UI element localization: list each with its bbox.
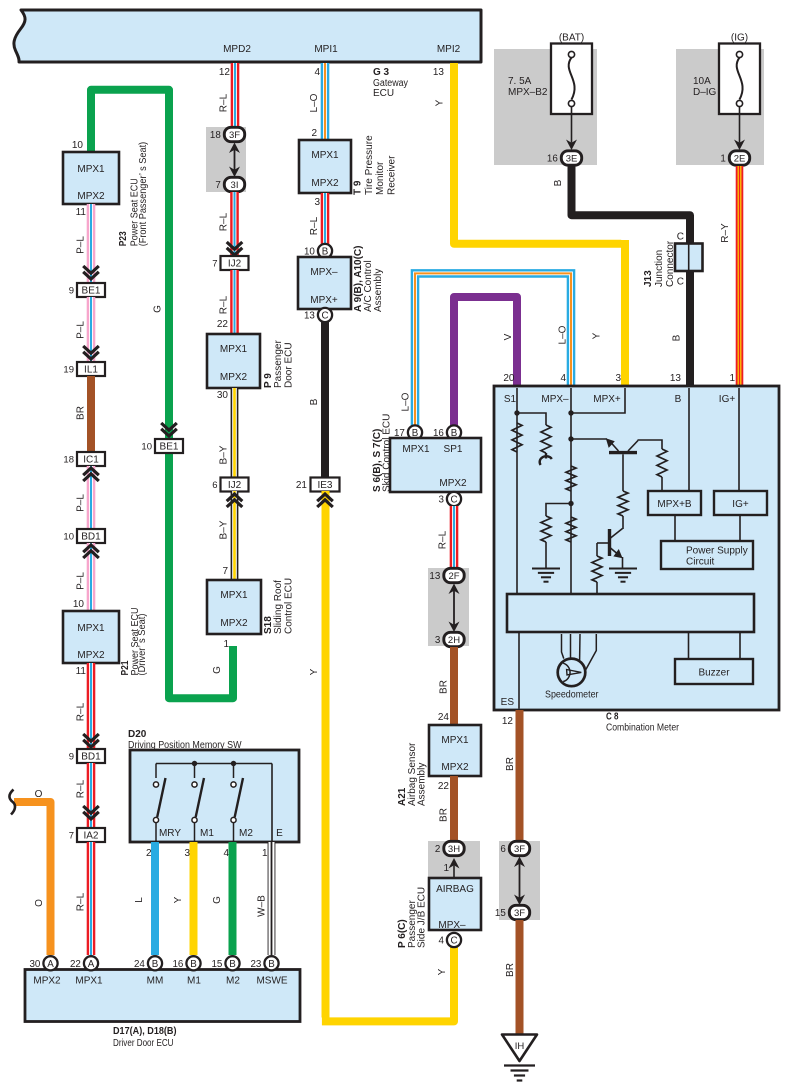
label S6 S7 [372,414,393,492]
svg-text:10A: 10A [693,76,711,87]
svg-text:IL1: IL1 [84,365,98,376]
connector 3H [435,841,464,855]
svg-text:R–L: R–L [76,892,87,911]
connector arrow to IL1 [83,346,99,359]
svg-text:MPX–: MPX– [541,394,569,405]
svg-text:G: G [212,896,223,904]
svg-text:16: 16 [172,959,183,970]
resistor ground branch [541,516,551,542]
svg-text:MPX2: MPX2 [441,762,469,773]
svg-text:R–L: R–L [219,212,230,231]
svg-text:22: 22 [438,781,450,792]
svg-text:IC1: IC1 [83,455,99,466]
wire D20 E line [271,764,273,843]
svg-text:3F: 3F [514,844,525,855]
wire base resistor to Q2 [622,516,624,529]
junction IJ2 lower [212,478,248,492]
svg-text:MPX2: MPX2 [311,178,339,189]
wire Y MPX+ drop [621,240,629,385]
svg-text:1: 1 [262,848,268,859]
ECU P9 Passenger Door ECU [207,334,260,388]
fuse block BAT gray [494,49,597,165]
connector arrow to IA2 [83,806,99,819]
ECU T9 Tire Pressure Monitor Receiver [299,140,351,193]
svg-text:MPX2: MPX2 [439,478,467,489]
svg-text:BE1: BE1 [82,286,101,297]
label A9 A10 [353,246,384,312]
svg-text:3: 3 [314,197,320,208]
svg-text:10: 10 [63,532,74,543]
connector 3E [547,151,582,165]
svg-text:(IG): (IG) [731,33,748,44]
svg-text:BD1: BD1 [81,532,101,543]
connector pin B M2 D17 [211,956,239,970]
wire Y bottom run to P6 [322,947,454,1021]
svg-text:R–L: R–L [76,779,87,798]
svg-text:G 3: G 3 [373,67,390,78]
svg-text:4: 4 [438,936,444,947]
wire B internal [688,388,690,491]
svg-text:Assembly: Assembly [373,269,384,312]
resistor on S1 line [512,423,522,452]
svg-text:23: 23 [250,959,261,970]
svg-text:B: B [672,334,683,341]
wire Q2 emitter to ground [622,557,624,569]
svg-text:2: 2 [435,844,440,855]
transistor Q2 [610,529,623,559]
svg-text:MPX2: MPX2 [77,650,105,661]
junction arrow 3F-3I [229,143,240,178]
svg-text:B: B [152,959,159,970]
svg-text:18: 18 [63,455,74,466]
svg-text:(Front Passenger’ s Seat): (Front Passenger’ s Seat) [138,142,149,247]
ECU A21 Airbag Sensor Assembly [429,725,481,776]
svg-text:MPX–B2: MPX–B2 [508,87,548,98]
node D20 bus M1 [192,761,197,766]
svg-text:16: 16 [547,154,558,165]
connector pin C skid MPX2 [438,492,461,506]
label S18 [263,578,294,634]
connector 3F ES lower [495,905,530,919]
fuse 10A D-IG [719,44,760,115]
svg-text:B–Y: B–Y [219,445,230,464]
svg-text:P–L: P–L [76,572,87,590]
svg-text:Buzzer: Buzzer [698,668,730,679]
wire Q2 base [597,542,609,544]
svg-text:BD1: BD1 [81,752,101,763]
wire G green P23 pin10 to S18 pin1 via BE1 [91,90,233,698]
junction arrow 2F-2H [449,584,460,633]
wire D20 bus [156,763,272,765]
wire P-L BD1 to P21 [87,543,96,611]
svg-text:11: 11 [76,207,87,218]
speedometer symbol [558,659,586,687]
label P6 [397,887,428,948]
ground symbol IH [504,1066,535,1081]
svg-text:MRY: MRY [159,828,181,839]
resistor MPX- upper [566,466,576,491]
wire L-O banner to T9 [321,63,330,140]
connector pin B MM D17 [134,956,162,970]
wire ES internal [518,632,520,709]
wire R-L MPD2 from banner [231,63,240,127]
svg-text:MPX2: MPX2 [220,372,248,383]
wire R-Y 2E to meter IG+ [736,166,744,385]
svg-text:IG+: IG+ [732,499,749,510]
wire R-L T9 to A9 [321,193,330,245]
wire BR 3F to ground IH [516,920,524,1036]
wire L-O skid to meter MPX- [415,273,571,426]
switch assembly D20 Driving Position Memory SW [130,750,299,842]
svg-text:22: 22 [70,959,81,970]
svg-text:J13: J13 [643,270,654,287]
svg-text:B: B [553,179,564,186]
svg-text:3F: 3F [514,908,525,919]
svg-text:12: 12 [502,716,514,727]
svg-text:MPX–: MPX– [310,267,338,278]
junction BE1 left [69,283,105,297]
wire R-L P21 to BD1 lower [87,663,96,749]
svg-text:D20: D20 [128,729,147,740]
svg-text:A: A [47,959,54,970]
resistor Q1 base [618,491,628,516]
svg-text:C: C [321,311,328,322]
svg-text:4: 4 [560,373,566,384]
svg-text:MPX1: MPX1 [311,150,339,161]
wire W-B D20 to D17 [268,842,276,955]
svg-text:C: C [450,495,457,506]
svg-text:C 8: C 8 [606,712,619,723]
resistor MPX- lower [566,517,576,542]
svg-text:3: 3 [435,635,441,646]
junction block 3F/3I gray [206,127,246,192]
ground G2 meter [609,569,637,582]
junction arrow 3F-3F [514,857,525,906]
connector arrow to BD1 lower [83,734,99,747]
svg-text:20: 20 [503,373,515,384]
svg-text:IH: IH [515,1041,525,1052]
wire Q2 base down [596,543,598,556]
svg-text:3: 3 [615,373,621,384]
svg-text:Door ECU: Door ECU [283,342,294,388]
wire Y D20 to D17 [190,842,198,955]
svg-text:Control ECU: Control ECU [283,578,294,634]
svg-text:IG+: IG+ [719,394,736,405]
svg-text:P–L: P–L [76,494,87,512]
wire to ground G1 [545,542,547,569]
svg-text:S1: S1 [504,394,517,405]
wire G D20 to D17 [229,842,237,955]
svg-text:Side J/B ECU: Side J/B ECU [417,887,428,948]
svg-text:MSWE: MSWE [256,976,287,987]
wire bus to buzzer right [739,632,741,659]
svg-text:2: 2 [311,128,317,139]
junction BD1 upper [63,529,105,543]
wire Q2 base resistor to bus [596,582,598,594]
svg-text:Circuit: Circuit [686,557,715,568]
node D20 bus M2 [231,761,236,766]
svg-text:10: 10 [73,599,85,610]
junction IE3 [311,478,340,492]
junction block 2F/2H gray [428,568,469,646]
svg-text:T 9: T 9 [353,180,364,195]
wire to Q1 emitter [571,438,607,440]
svg-text:15: 15 [495,908,506,919]
svg-text:Assembly: Assembly [417,763,428,806]
svg-text:MPX2: MPX2 [77,191,105,202]
svg-text:R–L: R–L [219,93,230,112]
svg-text:BR: BR [439,808,450,822]
svg-text:2E: 2E [734,154,746,165]
svg-text:Monitor: Monitor [375,161,386,195]
arrow fuse IG to 2E [734,107,745,150]
svg-text:L–O: L–O [558,325,569,344]
svg-text:P21: P21 [120,660,131,675]
connector pin B skid MPX1 [394,425,422,439]
wire P-L IC1 to BD1 [87,466,96,529]
svg-text:3H: 3H [448,844,460,855]
svg-text:BR: BR [439,680,450,694]
label D20 [128,729,242,751]
svg-text:B: B [190,959,197,970]
svg-text:Combination Meter: Combination Meter [606,723,680,734]
junction J13 divider [688,244,690,272]
svg-text:MPX1: MPX1 [441,735,469,746]
svg-text:IE3: IE3 [317,480,332,491]
svg-text:A: A [88,959,95,970]
svg-text:22: 22 [217,319,229,330]
svg-text:ECU: ECU [373,88,394,99]
label C8 [606,712,680,734]
junction IC1 [63,452,105,466]
svg-text:Speedometer: Speedometer [545,690,599,701]
switch M2 [231,764,243,843]
svg-text:18: 18 [210,130,221,141]
svg-text:MPD2: MPD2 [223,44,251,55]
svg-text:MPX1: MPX1 [75,976,103,987]
svg-text:MPX+: MPX+ [310,295,338,306]
wire BR 2H to A21 [450,647,458,725]
switch MRY [153,764,165,843]
svg-text:24: 24 [438,712,450,723]
ECU A9 A10 A/C Control Assembly [298,257,351,309]
svg-text:P23: P23 [118,231,129,246]
svg-text:M2: M2 [226,976,240,987]
svg-text:MPX+: MPX+ [593,394,621,405]
svg-text:1: 1 [720,154,725,165]
svg-text:19: 19 [63,365,74,376]
connector pin C A10 [304,308,332,322]
junction block 3F/3F gray [499,841,540,920]
svg-text:R–L: R–L [76,702,87,721]
svg-text:Y: Y [437,968,448,975]
wire Y MPI2 to meter MPX+ [454,63,621,244]
connector 3I lower [215,177,244,191]
svg-text:BR: BR [76,406,87,420]
wire Q1 collector [638,440,663,449]
svg-text:W–B: W–B [257,895,268,917]
connector pin B skid SP1 [433,425,461,439]
wire MPX+B to PSC [674,515,676,541]
wire B 3E to meter via J13 [572,166,691,385]
svg-text:R–Y: R–Y [720,223,731,243]
wire P-L BE1 to IL1 [87,297,96,362]
svg-text:7: 7 [69,831,74,842]
svg-text:24: 24 [134,959,145,970]
svg-text:B: B [229,959,236,970]
connector 3F ES upper [500,841,529,855]
svg-text:MPX1: MPX1 [220,590,248,601]
svg-text:2F: 2F [448,571,459,582]
svg-text:B–Y: B–Y [219,520,230,539]
svg-text:Y: Y [592,332,603,339]
ECU P23 Power Seat ECU (front passenger) [63,152,119,204]
svg-text:9: 9 [69,286,74,297]
svg-text:O: O [34,899,45,907]
ECU D17 D18 Driver Door ECU [25,970,300,1022]
connector pin A MPX1 D17 [70,956,98,970]
torn wire end marker [9,790,15,815]
svg-text:10: 10 [72,140,84,151]
svg-text:IA2: IA2 [83,831,98,842]
svg-text:(BAT): (BAT) [559,33,584,44]
label T9 [353,135,398,195]
wire R-L BD1 to IA2 [87,763,96,828]
svg-text:D17(A), D18(B): D17(A), D18(B) [113,1026,177,1037]
ECU P21 Power Seat ECU (driver) [63,611,119,663]
svg-text:7: 7 [222,566,228,577]
node MPX- junction 1 [568,410,573,415]
svg-text:MPX2: MPX2 [33,976,61,987]
connector 3F upper [210,127,245,141]
block Buzzer [675,659,753,684]
svg-text:MPX1: MPX1 [402,444,430,455]
label P9 [263,340,294,388]
svg-text:BE1: BE1 [160,442,179,453]
svg-text:3F: 3F [229,130,240,141]
wire P-L P23 to BE1 [87,204,96,283]
svg-text:3I: 3I [231,180,239,191]
svg-text:Y: Y [309,668,320,675]
wire BR ES to 3F [516,710,524,841]
wire L D20 to D17 [151,842,159,955]
svg-text:Y: Y [434,99,445,106]
bus bar banner (upper body harness) [14,10,481,62]
junction BD1 lower [69,749,105,763]
svg-text:G: G [153,305,164,313]
svg-text:MPI1: MPI1 [314,44,338,55]
svg-text:MPX1: MPX1 [77,623,105,634]
wire R-L 3I to IJ2 [230,192,239,256]
svg-text:11: 11 [76,666,87,677]
svg-text:L: L [134,897,145,903]
svg-text:13: 13 [304,311,315,322]
ECU C8 Combination Meter [494,386,779,710]
svg-text:30: 30 [29,959,40,970]
svg-text:15: 15 [211,959,222,970]
svg-text:2H: 2H [448,635,460,646]
svg-text:Power Supply: Power Supply [686,546,748,557]
connector 2F [429,568,464,582]
svg-text:MPI2: MPI2 [437,44,461,55]
svg-text:Y: Y [173,896,184,903]
svg-text:R–L: R–L [438,530,449,549]
wire Y IE3 down to bottom [322,491,330,1018]
resistor sensor branch [541,425,551,453]
ECU S6 S7 Skid Control [390,438,481,492]
wire S1 branch to sensor [517,413,546,425]
connector pin B M1 D17 [172,956,200,970]
svg-text:AIRBAG: AIRBAG [436,884,474,895]
svg-text:O: O [35,789,43,800]
connector pin C P6 [438,933,461,947]
svg-text:B: B [309,398,320,405]
svg-text:P–L: P–L [76,236,87,254]
fuse block IG gray [676,49,764,165]
svg-text:B: B [675,394,682,405]
node S1 junction [514,410,519,415]
junction BE1 green [141,439,183,453]
svg-text:IJ2: IJ2 [228,480,242,491]
svg-text:Junction: Junction [654,250,665,287]
wire R-L IJ2 to P9 [230,270,239,334]
svg-text:M1: M1 [200,828,214,839]
wire MPX- internal [570,388,572,594]
svg-text:(Driver’ s Seat): (Driver’ s Seat) [137,614,148,676]
svg-text:MPX1: MPX1 [77,164,105,175]
junction block 3H gray [428,841,480,877]
svg-text:Connector: Connector [665,240,676,287]
svg-text:4: 4 [314,67,320,78]
svg-text:MPX–: MPX– [438,920,466,931]
svg-text:3E: 3E [566,154,578,165]
svg-text:12: 12 [219,67,231,78]
wire B-Y P9 to IJ2 lower [231,388,239,478]
connector arrow to IE3 [317,494,333,507]
arrow fuse BAT to 3E [566,107,577,150]
svg-text:9: 9 [69,752,74,763]
svg-text:Skid Control ECU: Skid Control ECU [382,414,393,492]
svg-text:P–L: P–L [76,321,87,339]
svg-text:7: 7 [212,259,217,270]
junction connector J13 [675,244,703,272]
svg-text:ES: ES [501,697,515,708]
speedometer motor lines [562,634,597,670]
label Power Supply Circuit [686,546,748,568]
svg-text:D–IG: D–IG [693,87,717,98]
ground G1 meter [532,569,560,582]
svg-text:13: 13 [670,373,682,384]
wire resistor to MPX+B [661,477,663,491]
svg-text:V: V [503,333,514,340]
svg-text:MPX1: MPX1 [220,344,248,355]
transistor Q1 [606,438,638,452]
svg-text:3: 3 [438,495,444,506]
switch M1 [192,764,204,843]
wire B A10 to IE3 [321,322,329,478]
wire R-L skid to 2F [450,506,459,568]
connector 2H [435,632,464,646]
wire Q1 base [622,454,624,491]
svg-text:21: 21 [296,480,308,491]
junction IA2 [69,828,105,842]
svg-text:1: 1 [729,373,735,384]
sensor hook symbol [540,453,552,465]
node MPX- junction 3 [568,501,573,506]
block MPX+B [648,491,701,515]
connector pin B MSWE D17 [250,956,278,970]
node MPX- junction 2 [568,436,573,441]
